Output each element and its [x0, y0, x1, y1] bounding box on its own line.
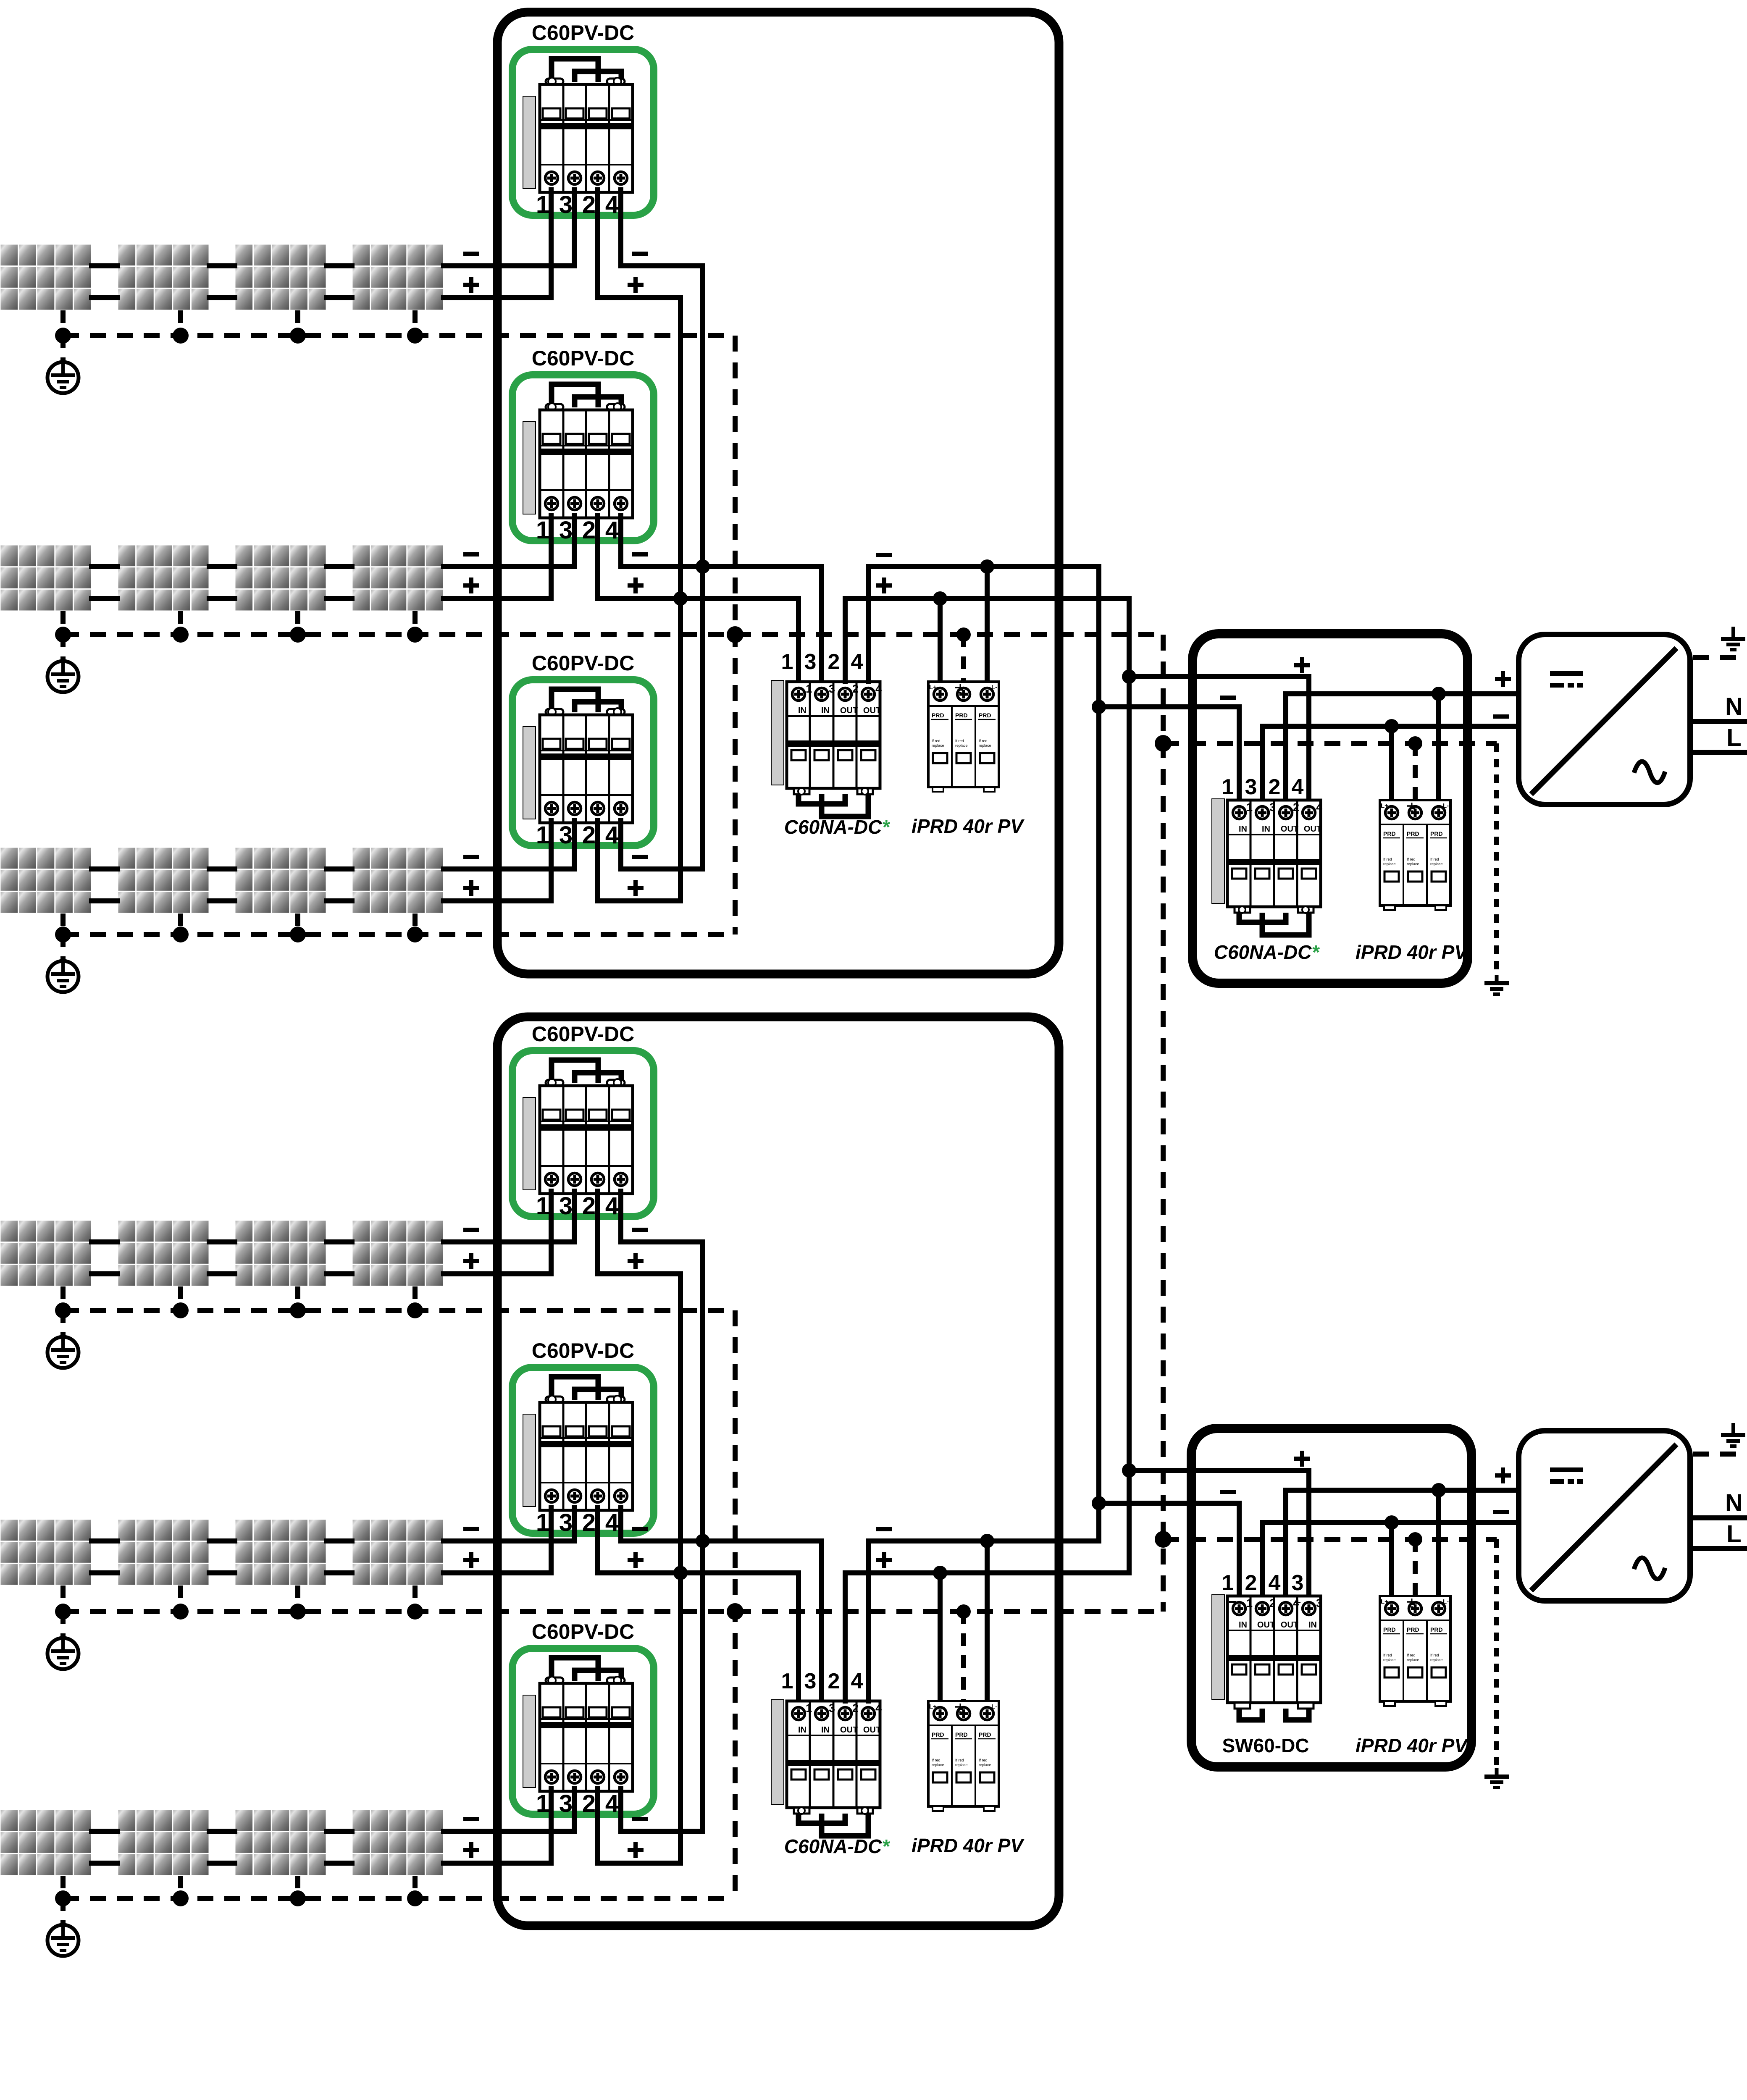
- svg-text:iPRD 40r PV: iPRD 40r PV: [912, 815, 1025, 837]
- svg-text:4: 4: [851, 650, 863, 674]
- node plus trunk tap to disconnect 2: [1122, 1463, 1136, 1478]
- node F4 L+ tap: [1384, 1515, 1399, 1530]
- label S1 minus out: [876, 553, 892, 557]
- wire Q1 terminal2 (plus out): [595, 190, 600, 298]
- wire Q2 minus out feeding switch: [621, 564, 822, 569]
- wire string3 minus to breaker: [444, 866, 574, 871]
- label Q1 plus out: [628, 283, 644, 287]
- wire string2 ground bus (dashed): [63, 632, 1163, 637]
- wire main plus trunk: [1127, 598, 1132, 1573]
- surge arrester F4 L- lead: [1436, 1490, 1441, 1596]
- label Q6 minus out: [632, 1817, 648, 1821]
- wire string3 minus interconnects: [92, 866, 352, 871]
- surge arrester F3 iPRD 40r PV: [1380, 800, 1450, 910]
- label string6 plus: [463, 1848, 479, 1852]
- label disconnect 2 minus feed: [1220, 1490, 1236, 1494]
- svg-text:N: N: [1725, 1489, 1743, 1517]
- label Q4 minus out: [632, 1228, 648, 1232]
- label Q2 plus out: [628, 583, 644, 588]
- wire string5 minus interconnects: [92, 1538, 352, 1543]
- surge arrester F2 iPRD 40r PV L+ lead: [938, 1573, 943, 1701]
- wire switch feed plus drop box1: [796, 598, 801, 682]
- surge arrester F3 L- lead: [1436, 694, 1441, 800]
- wire Q3 terminal2 (plus out): [595, 820, 600, 901]
- wire main minus trunk: [1096, 567, 1101, 1541]
- wire Q3 plus out to bus: [598, 898, 680, 903]
- label string3 minus: [463, 855, 479, 859]
- wire S4 minus out to inverter 2: [1262, 1522, 1516, 1596]
- svg-text:4: 4: [1269, 1571, 1281, 1595]
- label string4 plus: [463, 1259, 479, 1263]
- label Q3 plus out: [628, 886, 644, 890]
- wire string6 minus to breaker: [444, 1829, 574, 1834]
- main switch S1 C60NA-DC numerals: [781, 650, 863, 674]
- wire string1 frame ground stubs (dashed): [63, 310, 415, 336]
- wire string5 minus to breaker: [444, 1538, 574, 1543]
- wire earth drop disconnect 2 (dashed): [1494, 1539, 1499, 1768]
- wire minus feed disconnect 2: [1099, 1503, 1239, 1596]
- wire string1 ground bus (dashed): [63, 333, 735, 338]
- wire Q5 terminal3 (minus in): [572, 1508, 577, 1541]
- node string1 ground junctions: [55, 328, 423, 344]
- node earth riser box2 junction: [727, 1603, 743, 1620]
- svg-text:L: L: [1726, 724, 1741, 751]
- wire Q5 plus out feeding switch: [598, 1570, 799, 1575]
- wire string6 plus interconnects: [92, 1861, 352, 1866]
- wire S4 plus out to inverter 2: [1286, 1490, 1516, 1596]
- earth electrode disconnect 2: [1484, 1768, 1509, 1789]
- wire string2 plus interconnects: [92, 596, 352, 601]
- label string2 minus: [463, 552, 479, 556]
- wire inverter U2 L output: [1693, 1546, 1747, 1551]
- wire Q5 terminal1 (plus in): [549, 1508, 554, 1573]
- label Q1 minus out: [632, 252, 648, 256]
- PV panel string6 module1: [0, 1809, 92, 1876]
- wire S2 plus out riser: [843, 1573, 848, 1701]
- combiner box 1 enclosure: [497, 12, 1059, 974]
- label string5 minus: [463, 1527, 479, 1531]
- wire Q1 terminal4 (minus out): [618, 190, 623, 266]
- surge arrester F3 ground lead (dashed): [1413, 743, 1418, 800]
- wire Q4 plus out to bus: [598, 1271, 680, 1276]
- wire Q2 terminal3 (minus in): [572, 515, 577, 567]
- node F2 L- tap: [980, 1534, 994, 1548]
- wire Q3 terminal3 (minus in): [572, 820, 577, 869]
- PV panel string3 module3: [235, 847, 326, 913]
- wire string5 plus to breaker: [444, 1570, 551, 1575]
- label inverter 1 plus: [1495, 677, 1511, 681]
- svg-text:2: 2: [1245, 1571, 1257, 1595]
- wire Q3 minus out to bus: [621, 866, 703, 871]
- node string5 ground junctions: [55, 1604, 423, 1620]
- wire S1 minus out to box edge: [868, 564, 1099, 569]
- breaker Q1 C60PV-DC: [512, 50, 654, 219]
- node string4 ground junctions: [55, 1302, 423, 1318]
- wire Q1 plus out to bus: [598, 295, 680, 300]
- PV panel string5 module2: [118, 1519, 209, 1585]
- label disconnect 2 plus feed: [1294, 1457, 1310, 1461]
- disconnect switch S3 C60NA-DC: [1212, 799, 1322, 935]
- wire Q5 minus out feeding switch: [621, 1538, 822, 1543]
- node minus trunk tap to disconnect 1: [1092, 700, 1106, 714]
- wire Q5 terminal4 (minus out): [618, 1508, 623, 1541]
- breaker Q6 C60PV-DC: [512, 1648, 654, 1818]
- surge arrester F3 L+ lead: [1389, 726, 1394, 800]
- wire S2 minus out riser: [866, 1541, 871, 1701]
- svg-text:iPRD 40r PV: iPRD 40r PV: [1356, 941, 1469, 963]
- PV panel string4 module2: [118, 1220, 209, 1286]
- wire Q3 terminal1 (plus in): [549, 820, 554, 901]
- node earth riser box1 junction: [727, 626, 743, 643]
- wire Q1 terminal1 (plus in): [549, 190, 554, 298]
- earth electrode inverter U2: [1721, 1423, 1745, 1448]
- svg-text:C60PV-DC: C60PV-DC: [532, 1339, 635, 1362]
- svg-text:3: 3: [804, 650, 817, 674]
- node plus bus box2 junction: [673, 1566, 688, 1580]
- node string3 ground junctions: [55, 927, 423, 942]
- surge arrester F2 L- lead: [985, 1541, 990, 1701]
- svg-text:L: L: [1726, 1520, 1741, 1548]
- wire Q4 terminal4 (minus out): [618, 1191, 623, 1242]
- PV panel string2 module1: [0, 545, 92, 611]
- wire string3 ground bus (dashed): [63, 932, 735, 937]
- wire string6 ground bus (dashed): [63, 1896, 735, 1901]
- disconnect switch S4 numerals: [1222, 1571, 1304, 1595]
- wire Q6 terminal3 (minus in): [572, 1789, 577, 1831]
- disconnect box 2 enclosure: [1191, 1428, 1471, 1767]
- wire earth riser box1 (dashed): [733, 336, 738, 934]
- ground electrode string5: [47, 1638, 79, 1669]
- node minus bus box1 junction: [696, 559, 710, 574]
- label string4 minus: [463, 1228, 479, 1232]
- wire string4 minus to breaker: [444, 1239, 574, 1244]
- node F3 L+ tap: [1384, 719, 1399, 733]
- disconnect switch S3 numerals: [1222, 775, 1304, 799]
- surge arrester F2 ground lead (dashed): [961, 1612, 966, 1701]
- wire S2 plus out to box edge: [845, 1570, 1129, 1575]
- svg-text:3: 3: [804, 1669, 817, 1693]
- surge arrester F1 L- lead: [985, 567, 990, 682]
- label string3 plus: [463, 886, 479, 890]
- svg-text:1: 1: [1222, 1571, 1234, 1595]
- wire inverter U1 L output: [1693, 750, 1747, 755]
- wire Q2 terminal2 (plus out): [595, 515, 600, 598]
- label inverter 2 minus: [1493, 1510, 1509, 1514]
- node plus bus box1 junction: [673, 591, 688, 606]
- wire inverter U2 earth (dashed): [1693, 1452, 1742, 1457]
- wire string3 drop to earth (dashed): [60, 934, 66, 961]
- surge arrester F1 iPRD 40r PV: [928, 682, 999, 792]
- PV panel string1 module2: [118, 244, 209, 310]
- wire Q2 plus out feeding switch: [598, 596, 799, 601]
- label Q4 plus out: [628, 1259, 644, 1263]
- wire string4 minus interconnects: [92, 1239, 352, 1244]
- svg-text:C60PV-DC: C60PV-DC: [532, 1620, 635, 1643]
- PV panel string4 module4: [352, 1220, 444, 1286]
- wire Q6 minus out to bus: [621, 1829, 703, 1834]
- wire string1 minus to breaker: [444, 263, 574, 268]
- wire string3 frame ground stubs (dashed): [63, 913, 415, 934]
- PV panel string5 module3: [235, 1519, 326, 1585]
- node F3 ground tap: [1408, 736, 1422, 751]
- wire string2 minus interconnects: [92, 564, 352, 569]
- wire string4 drop to earth (dashed): [60, 1310, 66, 1337]
- PV panel string3 module1: [0, 847, 92, 913]
- node string6 ground junctions: [55, 1890, 423, 1906]
- label string5 plus: [463, 1558, 479, 1562]
- label Q6 plus out: [628, 1848, 644, 1852]
- wire plus bus box1: [678, 298, 683, 901]
- PV panel string6 module2: [118, 1809, 209, 1876]
- breaker Q2 C60PV-DC: [512, 375, 654, 544]
- main switch S2 C60NA-DC numerals: [781, 1669, 863, 1693]
- node minus trunk tap to disconnect 2: [1092, 1496, 1106, 1510]
- label string2 plus: [463, 583, 479, 588]
- ground electrode string1: [47, 362, 79, 393]
- wire main earth trunk (dashed): [1161, 635, 1166, 1612]
- wire Q4 terminal1 (plus in): [549, 1191, 554, 1274]
- wire string6 plus to breaker: [444, 1861, 551, 1866]
- label disconnect 1 plus feed: [1294, 663, 1310, 667]
- wire earth drop disconnect 1 (dashed): [1494, 743, 1499, 974]
- wire switch feed minus drop box1: [819, 567, 824, 682]
- disconnect box 1 enclosure: [1193, 634, 1468, 983]
- PV panel string3 module2: [118, 847, 209, 913]
- wire S1 plus out riser: [843, 598, 848, 682]
- label string6 minus: [463, 1817, 479, 1821]
- svg-text:1: 1: [781, 1669, 793, 1693]
- wire string5 ground bus (dashed): [63, 1609, 1163, 1614]
- wire string2 drop to earth (dashed): [60, 635, 66, 661]
- wire string1 minus interconnects: [92, 263, 352, 268]
- wire Q1 minus out to bus: [621, 263, 703, 268]
- PV panel string2 module2: [118, 545, 209, 611]
- earth electrode inverter U1: [1721, 627, 1745, 651]
- ground electrode string4: [47, 1337, 79, 1368]
- label Q5 plus out: [628, 1558, 644, 1562]
- wire inverter U1 N output: [1693, 719, 1747, 724]
- wire string6 minus interconnects: [92, 1829, 352, 1834]
- label inverter 2 plus: [1495, 1473, 1511, 1478]
- wire string3 plus interconnects: [92, 898, 352, 903]
- PV panel string2 module3: [235, 545, 326, 611]
- combiner box 2 enclosure: [497, 1017, 1059, 1926]
- wire string4 plus to breaker: [444, 1271, 551, 1276]
- inverter U2: [1519, 1431, 1690, 1601]
- wire inverter U1 earth (dashed): [1693, 655, 1742, 660]
- wire Q2 terminal4 (minus out): [618, 515, 623, 567]
- PV panel string1 module1: [0, 244, 92, 310]
- label string1 plus: [463, 283, 479, 287]
- PV panel string6 module3: [235, 1809, 326, 1876]
- label S2 minus out: [876, 1527, 892, 1531]
- wire minus bus box1: [700, 266, 705, 869]
- wire earth branch disconnect 1 (dashed): [1163, 741, 1497, 746]
- svg-text:1: 1: [781, 650, 793, 674]
- wire earth riser box2 (dashed): [733, 1310, 738, 1898]
- node earth trunk tap to disconnect 2: [1155, 1531, 1172, 1548]
- wire string5 plus interconnects: [92, 1570, 352, 1575]
- wire Q4 terminal3 (minus in): [572, 1191, 577, 1242]
- ground electrode string2: [47, 661, 79, 692]
- wire string1 plus to breaker: [444, 295, 551, 300]
- svg-text:2: 2: [828, 650, 840, 674]
- surge arrester F1 ground lead (dashed): [961, 635, 966, 682]
- wire string1 plus interconnects: [92, 295, 352, 300]
- svg-text:3: 3: [1245, 775, 1257, 799]
- svg-text:4: 4: [1292, 775, 1304, 799]
- label S1 plus out: [876, 583, 892, 588]
- breaker Q3 C60PV-DC: [512, 680, 654, 849]
- wire string6 drop to earth (dashed): [60, 1898, 66, 1925]
- wire S1 plus out to box edge: [845, 596, 1129, 601]
- surge arrester F4 iPRD 40r PV: [1380, 1596, 1450, 1706]
- svg-text:C60NA-DC*: C60NA-DC*: [784, 1835, 891, 1857]
- wire string6 frame ground stubs (dashed): [63, 1876, 415, 1898]
- svg-text:C60PV-DC: C60PV-DC: [532, 1022, 635, 1046]
- PV panel string1 module3: [235, 244, 326, 310]
- wire Q6 terminal2 (plus out): [595, 1789, 600, 1863]
- breaker Q5 C60PV-DC: [512, 1368, 654, 1537]
- wire inverter U2 N output: [1693, 1515, 1747, 1520]
- surge arrester F4 L+ lead: [1389, 1522, 1394, 1596]
- node F1 ground tap: [956, 627, 971, 642]
- wire string5 frame ground stubs (dashed): [63, 1585, 415, 1612]
- svg-text:C60PV-DC: C60PV-DC: [532, 651, 635, 675]
- node minus bus box2 junction: [696, 1534, 710, 1548]
- PV panel string4 module1: [0, 1220, 92, 1286]
- node F4 L- tap: [1432, 1483, 1446, 1497]
- wire Q1 terminal3 (minus in): [572, 190, 577, 266]
- svg-text:iPRD 40r PV: iPRD 40r PV: [1356, 1735, 1469, 1756]
- wire switch feed minus drop box2: [819, 1541, 824, 1701]
- main switch S2 C60NA-DC: [771, 1700, 882, 1836]
- PV panel string3 module4: [352, 847, 444, 913]
- label inverter 1 minus: [1493, 714, 1509, 719]
- wire earth branch disconnect 2 (dashed): [1163, 1537, 1497, 1542]
- wire Q6 plus out to bus: [598, 1861, 680, 1866]
- wire S3 plus out to inverter 1: [1286, 694, 1516, 800]
- svg-text:C60PV-DC: C60PV-DC: [532, 346, 635, 370]
- ground electrode string3: [47, 961, 79, 992]
- svg-text:3: 3: [1292, 1571, 1304, 1595]
- wire Q4 minus out to bus: [621, 1239, 703, 1244]
- earth electrode disconnect 1: [1484, 975, 1509, 996]
- svg-text:1: 1: [1222, 775, 1234, 799]
- ground electrode string6: [47, 1925, 79, 1956]
- wire string2 plus to breaker: [444, 596, 551, 601]
- wire Q5 terminal2 (plus out): [595, 1508, 600, 1573]
- wire string2 frame ground stubs (dashed): [63, 611, 415, 635]
- svg-text:SW60-DC: SW60-DC: [1222, 1735, 1309, 1756]
- svg-text:2: 2: [828, 1669, 840, 1693]
- PV panel string5 module4: [352, 1519, 444, 1585]
- wire S3 minus out to inverter 1: [1262, 726, 1516, 800]
- inverter U1: [1519, 635, 1690, 805]
- label disconnect 1 minus feed: [1220, 696, 1236, 700]
- wire Q2 terminal1 (plus in): [549, 515, 554, 598]
- wire plus bus box2: [678, 1274, 683, 1863]
- PV panel string1 module4: [352, 244, 444, 310]
- surge arrester F4 ground lead (dashed): [1413, 1539, 1418, 1596]
- PV panel string5 module1: [0, 1519, 92, 1585]
- wire plus feed disconnect 1: [1129, 677, 1309, 800]
- wire string5 drop to earth (dashed): [60, 1612, 66, 1638]
- PV panel string4 module3: [235, 1220, 326, 1286]
- disconnect switch S4 SW60-DC: [1212, 1595, 1322, 1720]
- svg-text:C60NA-DC*: C60NA-DC*: [1214, 941, 1320, 963]
- breaker Q4 C60PV-DC: [512, 1051, 654, 1220]
- svg-text:4: 4: [851, 1669, 863, 1693]
- node earth trunk tap to disconnect 1: [1155, 735, 1172, 752]
- label S2 plus out: [876, 1558, 892, 1562]
- node F2 L+ tap: [933, 1566, 947, 1580]
- wire string4 plus interconnects: [92, 1271, 352, 1276]
- node F3 L- tap: [1432, 687, 1446, 701]
- node F4 ground tap: [1408, 1532, 1422, 1546]
- wire switch feed plus drop box2: [796, 1573, 801, 1701]
- wire string1 drop to earth (dashed): [60, 336, 66, 362]
- svg-text:iPRD 40r PV: iPRD 40r PV: [912, 1835, 1025, 1856]
- wire Q4 terminal2 (plus out): [595, 1191, 600, 1274]
- svg-text:C60PV-DC: C60PV-DC: [532, 21, 635, 45]
- node F1 L+ tap: [933, 591, 947, 606]
- wire minus feed disconnect 1: [1099, 707, 1239, 800]
- wire string4 ground bus (dashed): [63, 1308, 735, 1313]
- wire Q3 terminal4 (minus out): [618, 820, 623, 869]
- label Q5 minus out: [632, 1527, 648, 1531]
- PV panel string6 module4: [352, 1809, 444, 1876]
- node string2 ground junctions: [55, 627, 423, 643]
- surge arrester F1 iPRD 40r PV L+ lead: [938, 598, 943, 682]
- node plus trunk tap to disconnect 1: [1122, 669, 1136, 684]
- svg-text:2: 2: [1269, 775, 1281, 799]
- wire Q6 terminal4 (minus out): [618, 1789, 623, 1831]
- wire plus feed disconnect 2: [1129, 1470, 1309, 1596]
- surge arrester F2 iPRD 40r PV: [928, 1701, 999, 1811]
- wire S2 minus out to box edge: [868, 1538, 1099, 1543]
- wire minus bus box2: [700, 1242, 705, 1831]
- PV panel string2 module4: [352, 545, 444, 611]
- wire string4 frame ground stubs (dashed): [63, 1286, 415, 1310]
- wire S1 minus out riser: [866, 567, 871, 682]
- svg-text:C60NA-DC*: C60NA-DC*: [784, 816, 891, 838]
- label string1 minus: [463, 252, 479, 256]
- label Q2 minus out: [632, 552, 648, 556]
- wire string2 minus to breaker: [444, 564, 574, 569]
- node F1 L- tap: [980, 559, 994, 574]
- label Q3 minus out: [632, 855, 648, 859]
- node F2 ground tap: [956, 1604, 971, 1619]
- main switch S1 C60NA-DC: [771, 680, 882, 816]
- wire Q6 terminal1 (plus in): [549, 1789, 554, 1863]
- wire string3 plus to breaker: [444, 898, 551, 903]
- svg-text:N: N: [1725, 693, 1743, 720]
